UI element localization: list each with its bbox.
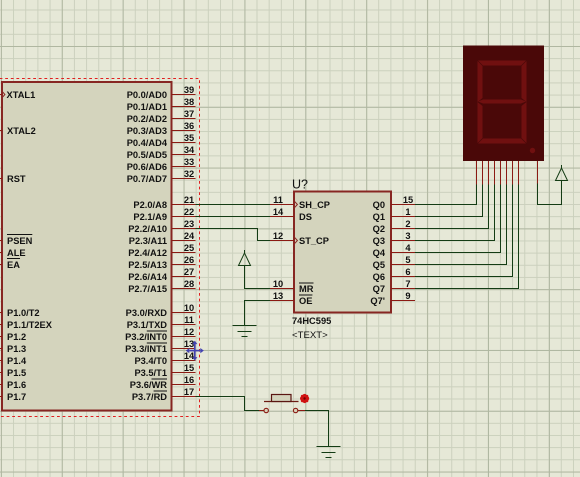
svg-text:Q3: Q3 <box>373 236 385 246</box>
svg-text:P0.2/AD2: P0.2/AD2 <box>127 114 167 124</box>
U1 left pin RST <box>0 174 26 184</box>
svg-text:22: 22 <box>184 207 194 217</box>
display common pin <box>537 161 539 184</box>
svg-text:11: 11 <box>184 315 194 325</box>
svg-text:P1.4: P1.4 <box>7 356 27 366</box>
U1 pin 35 P0.4/AD4 <box>127 133 196 148</box>
svg-text:OE: OE <box>299 296 312 306</box>
svg-text:P2.3/A11: P2.3/A11 <box>129 236 167 246</box>
svg-text:35: 35 <box>184 133 194 143</box>
svg-text:27: 27 <box>184 267 194 277</box>
wire button to ground <box>305 411 329 447</box>
blue move cursor at pin 13 <box>186 341 204 361</box>
svg-text:P3.7/RD: P3.7/RD <box>132 392 167 402</box>
svg-text:P2.0/A8: P2.0/A8 <box>133 200 167 210</box>
display segment d (bottom) <box>478 139 526 144</box>
svg-text:5: 5 <box>405 255 410 265</box>
svg-text:1: 1 <box>405 207 410 217</box>
U1 pin 11 P3.1/TXD <box>127 315 196 330</box>
U1 pin 36 P0.3/AD3 <box>127 121 196 136</box>
svg-text:P3.4/T0: P3.4/T0 <box>134 356 167 366</box>
svg-text:2: 2 <box>405 219 410 229</box>
U? pin 9 Q7' <box>370 291 415 306</box>
svg-text:26: 26 <box>184 255 194 265</box>
svg-text:P3.2/INT0: P3.2/INT0 <box>125 332 167 342</box>
svg-text:P0.3/AD3: P0.3/AD3 <box>127 126 167 136</box>
microcontroller U1 (8051) body <box>2 82 172 411</box>
U? pin 6 Q6 <box>373 267 415 282</box>
svg-text:Q2: Q2 <box>373 224 385 234</box>
wire net Q7 to display pin 8 <box>415 185 519 289</box>
svg-text:P3.6/WR: P3.6/WR <box>130 380 167 390</box>
wire VCC to MR pin <box>245 266 271 289</box>
U1 overline PSEN <box>7 234 32 236</box>
svg-text:21: 21 <box>184 195 194 205</box>
button actuator <box>272 395 292 402</box>
svg-text:Q4: Q4 <box>373 248 386 258</box>
U1 pin 10 P3.0/RXD <box>126 303 196 318</box>
svg-text:9: 9 <box>405 291 410 301</box>
U1 pin 25 P2.4/A12 <box>128 243 195 258</box>
U1 pin 37 P0.2/AD2 <box>127 109 196 124</box>
svg-text:7: 7 <box>405 279 410 289</box>
U1 left pin P1.2 <box>0 332 26 342</box>
svg-text:MR: MR <box>299 284 314 294</box>
U1 pin 27 P2.6/A14 <box>128 267 195 282</box>
svg-text:13: 13 <box>273 291 283 301</box>
wire OE pin to ground <box>245 301 271 326</box>
svg-text:P0.5/AD5: P0.5/AD5 <box>127 150 167 160</box>
svg-text:24: 24 <box>184 231 195 241</box>
svg-text:P0.7/AD7: P0.7/AD7 <box>127 174 167 184</box>
U1 pin 14 P3.4/T0 <box>134 351 195 366</box>
U1 pin 28 P2.7/A15 <box>128 279 195 294</box>
svg-text:PSEN: PSEN <box>7 236 33 246</box>
svg-text:SH_CP: SH_CP <box>299 200 330 210</box>
svg-text:Q7': Q7' <box>370 296 385 306</box>
U1 left pin P1.6 <box>0 380 26 390</box>
shift register U? 74HC595 body <box>294 192 391 313</box>
display segment pin 5 <box>500 161 502 185</box>
svg-text:<TEXT>: <TEXT> <box>292 330 328 341</box>
svg-text:33: 33 <box>184 157 194 167</box>
wire net P3.7/RD to button <box>196 397 260 411</box>
svg-text:12: 12 <box>184 327 194 337</box>
svg-text:6: 6 <box>405 267 410 277</box>
svg-text:4: 4 <box>405 243 411 253</box>
svg-text:P3.0/RXD: P3.0/RXD <box>126 308 168 318</box>
svg-text:15: 15 <box>403 195 413 205</box>
svg-text:P2.5/A13: P2.5/A13 <box>128 260 167 270</box>
svg-text:XTAL2: XTAL2 <box>7 126 36 136</box>
display segment pin 3 <box>488 161 490 185</box>
ground symbol near U? <box>233 325 257 327</box>
U1 left pin XTAL1 <box>0 90 35 100</box>
display segment pin 1 <box>476 161 478 185</box>
svg-text:10: 10 <box>273 279 283 289</box>
svg-text:14: 14 <box>184 351 195 361</box>
svg-text:EA: EA <box>7 260 20 270</box>
U? pin 14 DS <box>270 207 312 222</box>
selection box (red dashed) around U1 <box>0 79 200 417</box>
U? pin 7 Q7 <box>373 279 415 294</box>
svg-text:DS: DS <box>299 212 312 222</box>
svg-text:P3.3/INT1: P3.3/INT1 <box>125 344 167 354</box>
7-segment display body <box>463 46 544 162</box>
U1 left pin PSEN <box>0 236 33 246</box>
U1 pin 39 P0.0/AD0 <box>127 85 196 100</box>
U? pin 5 Q5 <box>373 255 415 270</box>
svg-text:16: 16 <box>184 375 194 385</box>
U1 pin 13 P3.3/INT1 <box>125 339 195 354</box>
button origin marker (red star) <box>300 394 309 403</box>
svg-text:34: 34 <box>184 145 195 155</box>
button left terminal pin <box>259 410 264 412</box>
wire display common to VCC terminal <box>538 181 562 205</box>
svg-text:P2.6/A14: P2.6/A14 <box>128 272 168 282</box>
U1 pin 23 P2.2/A10 <box>128 219 195 234</box>
svg-text:3: 3 <box>405 231 410 241</box>
svg-text:P0.4/AD4: P0.4/AD4 <box>127 138 168 148</box>
U? pin 12 ST_CP <box>270 231 329 246</box>
svg-text:XTAL1: XTAL1 <box>7 90 36 100</box>
svg-text:74HC595: 74HC595 <box>292 316 331 326</box>
svg-text:P2.2/A10: P2.2/A10 <box>128 224 167 234</box>
display segment g (middle) <box>478 100 526 104</box>
svg-text:P1.0/T2: P1.0/T2 <box>7 308 40 318</box>
svg-text:ALE: ALE <box>7 248 26 258</box>
display segment e (bottom-left) <box>478 102 483 143</box>
U1 overline EA <box>7 258 20 260</box>
svg-text:P0.0/AD0: P0.0/AD0 <box>127 90 167 100</box>
wire net P2.0 to SH_CP <box>196 204 271 206</box>
svg-text:P1.1/T2EX: P1.1/T2EX <box>7 320 53 330</box>
U1 pin 26 P2.5/A13 <box>128 255 195 270</box>
svg-text:P1.5: P1.5 <box>7 368 26 378</box>
U? pin 3 Q3 <box>373 231 415 246</box>
U1 pin 33 P0.6/AD6 <box>127 157 196 172</box>
U? pin 10 MR <box>270 279 314 294</box>
ground symbol at button <box>317 446 341 448</box>
wire net Q5 to display pin 6 <box>415 185 507 265</box>
U1 pin 32 P0.7/AD7 <box>127 169 196 184</box>
svg-text:RST: RST <box>7 174 26 184</box>
svg-text:P3.5/T1: P3.5/T1 <box>134 368 167 378</box>
svg-text:38: 38 <box>184 97 194 107</box>
svg-text:P0.1/AD1: P0.1/AD1 <box>127 102 167 112</box>
svg-text:P2.4/A12: P2.4/A12 <box>128 248 167 258</box>
U1 pin 38 P0.1/AD1 <box>127 97 196 112</box>
U1 left pin P1.1/T2EX <box>0 320 53 330</box>
svg-text:10: 10 <box>184 303 194 313</box>
U1 left pin P1.5 <box>0 368 26 378</box>
display segment b (top-right) <box>522 61 527 102</box>
svg-text:Q5: Q5 <box>373 260 385 270</box>
U1 left pin XTAL2 <box>0 126 36 136</box>
display segment a (top) <box>478 61 526 66</box>
display segment pin 4 <box>494 161 496 185</box>
wire net Q3 to display pin 4 <box>415 185 495 241</box>
power terminal (VCC arrow) at display <box>556 168 568 181</box>
U1 left pin EA <box>0 260 20 270</box>
svg-text:17: 17 <box>184 387 194 397</box>
svg-text:P2.7/A15: P2.7/A15 <box>128 284 167 294</box>
display segment pin 8 <box>518 161 520 185</box>
display segment pin 2 <box>482 161 484 185</box>
U1 pin 34 P0.5/AD5 <box>127 145 196 160</box>
svg-text:15: 15 <box>184 363 194 373</box>
U1 pin 22 P2.1/A9 <box>133 207 195 222</box>
U1 left pin ALE <box>0 248 26 258</box>
svg-text:P1.2: P1.2 <box>7 332 26 342</box>
display segment c (bottom-right) <box>522 102 527 143</box>
U1 pin 15 P3.5/T1 <box>134 363 195 378</box>
display segment pin 6 <box>506 161 508 185</box>
svg-text:11: 11 <box>273 195 283 205</box>
U1 left pin P1.7 <box>0 392 26 402</box>
svg-text:U?: U? <box>292 178 308 192</box>
display decimal point <box>530 148 535 153</box>
svg-text:P1.3: P1.3 <box>7 344 26 354</box>
display segment f (top-left) <box>478 61 483 102</box>
U1 pin 17 P3.7/RD <box>132 387 196 402</box>
svg-text:28: 28 <box>184 279 194 289</box>
svg-text:P2.1/A9: P2.1/A9 <box>133 212 167 222</box>
U? pin 11 SH_CP <box>270 195 330 210</box>
svg-text:32: 32 <box>184 169 194 179</box>
svg-text:Q6: Q6 <box>373 272 385 282</box>
wire net Q0 to display pin 1 <box>415 185 477 205</box>
U? pin 4 Q4 <box>373 243 415 258</box>
wire net Q2 to display pin 3 <box>415 185 489 229</box>
U? pin 1 Q1 <box>373 207 415 222</box>
U1 left pin P1.4 <box>0 356 27 366</box>
power terminal (VCC arrow) for MR <box>239 253 251 266</box>
U? pin 15 Q0 <box>373 195 415 210</box>
U1 left pin P1.0/T2 <box>0 308 40 318</box>
U1 left pin P1.3 <box>0 344 26 354</box>
svg-text:12: 12 <box>273 231 283 241</box>
wire net P2.1 to DS <box>196 216 271 218</box>
svg-text:36: 36 <box>184 121 194 131</box>
wire net Q6 to display pin 7 <box>415 185 513 277</box>
button right terminal pin <box>298 410 305 412</box>
U1 pin 24 P2.3/A11 <box>129 231 196 246</box>
U1 pin 21 P2.0/A8 <box>133 195 195 210</box>
svg-text:Q7: Q7 <box>373 284 385 294</box>
wire net Q4 to display pin 5 <box>415 185 501 253</box>
svg-text:23: 23 <box>184 219 194 229</box>
U1 pin 16 P3.6/WR <box>130 375 196 390</box>
wire net P2.2 to ST_CP <box>196 229 271 241</box>
wire net Q1 to display pin 2 <box>415 185 483 217</box>
U? pin 13 OE <box>270 291 312 306</box>
U? pin 2 Q2 <box>373 219 415 234</box>
button contact bar <box>264 401 299 403</box>
U1 pin 12 P3.2/INT0 <box>125 327 195 342</box>
svg-text:Q1: Q1 <box>373 212 385 222</box>
svg-text:39: 39 <box>184 85 194 95</box>
svg-text:25: 25 <box>184 243 194 253</box>
svg-text:14: 14 <box>273 207 284 217</box>
svg-text:P3.1/TXD: P3.1/TXD <box>127 320 168 330</box>
svg-text:ST_CP: ST_CP <box>299 236 329 246</box>
display segment pin 7 <box>512 161 514 185</box>
svg-text:P1.6: P1.6 <box>7 380 26 390</box>
svg-text:P1.7: P1.7 <box>7 392 26 402</box>
svg-text:P0.6/AD6: P0.6/AD6 <box>127 162 167 172</box>
svg-text:37: 37 <box>184 109 194 119</box>
svg-text:Q0: Q0 <box>373 200 385 210</box>
